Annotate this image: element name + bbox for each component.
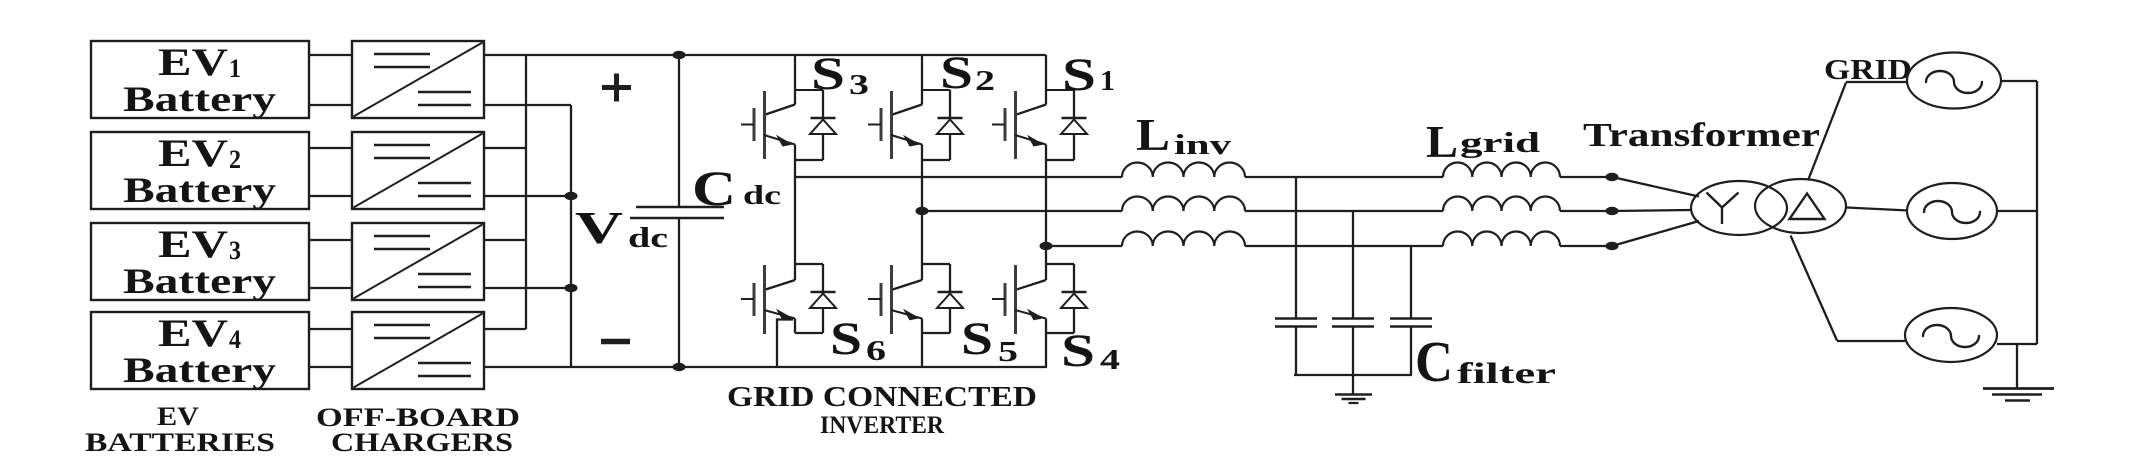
negative collector bus (vertical) <box>570 105 572 367</box>
node phase B <box>1606 207 1619 215</box>
label GRID CONNECTED INVERTER <box>727 382 1037 439</box>
wire phase C mid <box>1245 245 1443 247</box>
wire leg midpoint connector x=922 <box>921 160 923 264</box>
svg-text:5: 5 <box>998 336 1018 368</box>
svg-text:S: S <box>961 313 993 365</box>
wire source3 to grid bus <box>1997 343 2037 345</box>
svg-text:Transformer: Transformer <box>1583 117 1820 154</box>
wire phase B to Y winding <box>1612 210 1692 211</box>
wire delta to grid source 1 <box>1808 82 1907 181</box>
label OFF-BOARD CHARGERS <box>316 403 520 457</box>
capacitor Cfilter phase C <box>1390 246 1432 375</box>
transistor S4 (lower IGBT with antiparallel diode) <box>992 264 1087 334</box>
node DC+ junction <box>673 51 686 59</box>
transistor S5 (lower IGBT with antiparallel diode) <box>868 264 963 334</box>
EV1 battery box <box>91 41 309 119</box>
svg-text:S: S <box>1061 325 1095 377</box>
wire leg midpoint connector x=1046 <box>1045 160 1047 264</box>
label S2 <box>940 47 995 99</box>
transistor S2 (upper IGBT with antiparallel diode) <box>868 55 963 160</box>
inductor Linv phase C <box>1122 232 1245 247</box>
svg-text:EV: EV <box>158 312 228 355</box>
off-board charger 3 (DC/DC converter) <box>352 223 484 300</box>
wire S5 emitter to DC- rail <box>921 333 923 367</box>
node phase B tap <box>916 207 929 215</box>
svg-text:2: 2 <box>975 65 995 97</box>
node phase A <box>1606 173 1619 181</box>
label S1 <box>1062 49 1115 101</box>
wire grid neutral bus <box>2036 81 2038 344</box>
wire phase B from leg2 <box>922 210 1122 212</box>
svg-text:3: 3 <box>849 69 869 101</box>
node DC- junction <box>673 363 686 371</box>
svg-text:6: 6 <box>866 335 886 367</box>
svg-text:4: 4 <box>1100 344 1120 376</box>
wire S4 emitter to DC- rail <box>1045 333 1047 367</box>
svg-text:Battery: Battery <box>123 170 276 210</box>
capacitor Cfilter phase A <box>1275 177 1317 375</box>
svg-text:EV: EV <box>158 41 228 84</box>
node phase C tap <box>1040 242 1053 250</box>
wire charger2 - output <box>484 195 571 197</box>
inductor Linv phase B <box>1122 197 1245 212</box>
wire phase B mid <box>1245 210 1443 212</box>
svg-text:S: S <box>811 48 845 100</box>
wire leg midpoint connector x=795 <box>794 160 796 264</box>
inductor Lgrid phase A <box>1443 163 1560 178</box>
label Linv <box>1136 109 1232 161</box>
wire DC link upper <box>678 55 680 207</box>
svg-text:S: S <box>940 47 973 99</box>
wire source1 to grid bus <box>2001 80 2037 82</box>
DC+ rail <box>679 54 1046 56</box>
wire charger4 - output to DC- rail <box>484 366 679 368</box>
EV3 battery box <box>91 223 309 301</box>
label - polarity <box>601 339 630 345</box>
svg-text:1: 1 <box>1100 65 1115 97</box>
svg-text:BATTERIES: BATTERIES <box>85 428 275 457</box>
wire phase C to Y winding <box>1612 221 1699 246</box>
wire filter neutral bus <box>1294 374 1412 376</box>
svg-text:EV: EV <box>157 402 199 431</box>
label S3 <box>811 48 869 101</box>
capacitor Cfilter phase B <box>1332 211 1374 375</box>
wire phase C to transformer node <box>1560 245 1612 247</box>
capacitor Cdc <box>630 207 724 218</box>
svg-text:L: L <box>1426 116 1458 167</box>
svg-text:Battery: Battery <box>123 79 276 119</box>
wire phase C from leg3 <box>1046 245 1122 247</box>
svg-text:C: C <box>1415 329 1453 394</box>
wire S6 emitter hook to DC- rail <box>777 320 793 368</box>
svg-text:EV: EV <box>158 223 228 266</box>
svg-text:grid: grid <box>1460 127 1540 159</box>
svg-text:INVERTER: INVERTER <box>820 412 945 439</box>
off-board charger 4 (DC/DC converter) <box>352 312 484 389</box>
svg-text:dc: dc <box>743 180 781 210</box>
wire phase B to transformer node <box>1560 210 1612 212</box>
label + polarity <box>602 74 631 102</box>
wire charger3 - output <box>484 287 571 289</box>
svg-text:V: V <box>575 203 623 253</box>
label Lgrid <box>1426 116 1540 167</box>
EV4 battery box <box>91 312 309 390</box>
svg-text:GRID CONNECTED: GRID CONNECTED <box>727 382 1037 413</box>
label S5 <box>961 313 1018 368</box>
svg-text:EV: EV <box>158 132 228 175</box>
transformer U1 delta winding <box>1755 179 1846 233</box>
wire DC link lower <box>678 218 680 367</box>
wire phase A to Y winding <box>1612 177 1699 197</box>
svg-text:S: S <box>1062 49 1096 101</box>
wire EV4 battery to charger <box>309 329 352 367</box>
EV2 battery box <box>91 132 309 210</box>
wire phase A to transformer node <box>1560 176 1612 178</box>
svg-text:inv: inv <box>1174 129 1232 161</box>
DC- rail <box>679 366 1047 368</box>
off-board charger 1 (DC/DC converter) <box>352 41 484 118</box>
svg-text:Battery: Battery <box>123 261 276 301</box>
svg-text:L: L <box>1136 109 1170 160</box>
wire phase A from leg1 <box>795 176 1122 178</box>
wire delta to grid source 3 <box>1791 236 1906 342</box>
svg-text:C: C <box>692 160 736 216</box>
transformer U1 wye winding <box>1691 181 1787 235</box>
wire delta to grid source 2 <box>1847 208 1909 211</box>
transistor S6 (lower IGBT with antiparallel diode) <box>741 264 836 334</box>
junction charger2- on negative bus <box>565 192 578 200</box>
junction charger3- on negative bus <box>565 284 578 292</box>
wire phase A mid <box>1245 176 1443 178</box>
svg-text:CHARGERS: CHARGERS <box>331 428 513 457</box>
svg-text:GRID: GRID <box>1824 54 1912 86</box>
wire EV3 battery to charger <box>309 240 352 288</box>
wire EV1 battery to charger <box>309 55 352 105</box>
svg-text:filter: filter <box>1457 357 1556 390</box>
label Cfilter <box>1415 329 1556 394</box>
ground filter neutral <box>1335 375 1372 403</box>
label S6 <box>830 313 886 367</box>
svg-text:dc: dc <box>628 223 668 254</box>
AC source grid phase 1 <box>1907 53 2001 109</box>
transistor S1 (upper IGBT with antiparallel diode) <box>992 55 1087 160</box>
wire source2 to grid bus <box>1997 210 2037 212</box>
wire charger2 + output <box>484 147 526 149</box>
wire charger1 - output <box>484 104 571 106</box>
AC source grid phase 2 <box>1907 183 1997 239</box>
wire charger3 + output <box>484 239 526 241</box>
svg-text:S: S <box>830 313 862 365</box>
node phase C <box>1606 242 1619 250</box>
off-board charger 2 (DC/DC converter) <box>352 132 484 209</box>
wire EV2 battery to charger <box>309 148 352 196</box>
wire charger4 + output <box>484 328 526 330</box>
label S4 <box>1061 325 1120 377</box>
svg-text:Battery: Battery <box>123 350 276 390</box>
label Cdc <box>692 160 781 216</box>
inductor Lgrid phase B <box>1443 197 1560 212</box>
transistor S3 (upper IGBT with antiparallel diode) <box>741 55 836 160</box>
AC source grid phase 3 <box>1905 308 1997 362</box>
wire charger1 + output to DC+ rail <box>484 54 679 56</box>
ground grid neutral <box>1983 344 2054 401</box>
label EV BATTERIES <box>85 402 275 457</box>
positive collector bus (vertical) <box>525 55 527 329</box>
label Vdc <box>575 203 668 254</box>
inductor Linv phase A <box>1122 163 1245 178</box>
inductor Lgrid phase C <box>1443 232 1560 247</box>
